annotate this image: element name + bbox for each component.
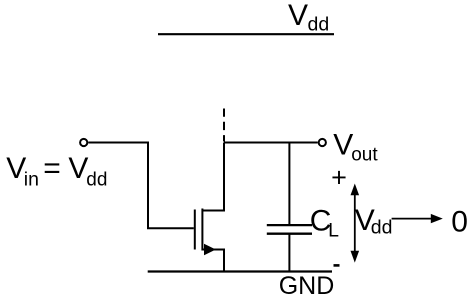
svg-text:Vdd: Vdd bbox=[288, 0, 329, 36]
svg-text:Vdd: Vdd bbox=[355, 204, 393, 238]
svg-text:0: 0 bbox=[451, 205, 468, 238]
Vin terminal bbox=[80, 139, 87, 146]
transition arrowhead bbox=[431, 214, 443, 223]
voltage swing arrowhead down bbox=[351, 251, 360, 263]
svg-text:Vout: Vout bbox=[333, 129, 378, 166]
capacitor CL bottom plate bbox=[267, 233, 312, 235]
svg-text:Vin=Vdd: Vin=Vdd bbox=[6, 152, 107, 190]
svg-text:GND: GND bbox=[279, 272, 335, 300]
wire source stub bbox=[202, 250, 224, 272]
transistor M1 gate bar bbox=[194, 210, 196, 250]
voltage swing arrowhead up bbox=[351, 184, 360, 196]
capacitor CL top plate bbox=[267, 224, 312, 226]
dashed wire drain to Vdd bbox=[223, 109, 225, 142]
transition arrow shaft bbox=[392, 218, 432, 220]
ground rail bbox=[148, 270, 332, 272]
wire Vin to gate bbox=[88, 143, 194, 229]
minus polarity sign bbox=[334, 264, 340, 267]
Vdd supply rail bbox=[158, 33, 334, 35]
voltage swing double arrow shaft bbox=[354, 193, 356, 253]
wire capacitor branch bbox=[288, 143, 290, 226]
wire capacitor to ground bbox=[288, 234, 290, 272]
wire drain stub bbox=[202, 143, 224, 211]
Vout terminal bbox=[319, 139, 326, 146]
svg-text:CL: CL bbox=[310, 205, 339, 242]
transistor M1 channel bar bbox=[201, 209, 203, 251]
svg-text:+: + bbox=[331, 162, 347, 192]
transistor M1 source arrow bbox=[204, 244, 216, 256]
wire output node bbox=[224, 142, 318, 144]
